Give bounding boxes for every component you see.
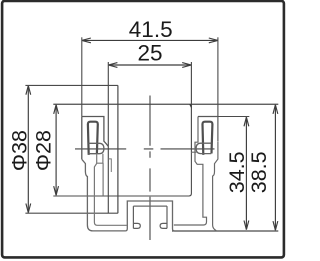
extension line 41.5 right [217,37,219,141]
T-slot left hook with lip [133,206,140,228]
right clip inner tube [202,122,212,155]
right clip inner edge, bracket steps and foot inner wall [174,117,207,226]
svg-text:Φ28: Φ28 [32,130,56,171]
right clip outer rect top [198,116,218,118]
vertical centerline (chain line) [149,96,151,241]
extension line 25 right / bracket edge [190,62,192,152]
T-slot right hook with lip [160,206,167,228]
dimension line phi28 vertical with arrows [54,105,59,195]
dimension line 34.5 vertical with arrows [244,117,249,229]
phi28 bottom extension / bracket plate top edge [53,152,191,196]
T-slot inner ceiling [133,205,167,207]
left clip outer edge [81,117,83,160]
svg-text:38.5: 38.5 [247,151,271,193]
right axle pill [196,143,211,153]
left clip lower outline, foot and T-slot outer walls [82,159,175,231]
svg-text:Φ38: Φ38 [7,130,31,171]
svg-text:34.5: 34.5 [225,151,249,193]
dimension line phi38 vertical with arrows [26,86,31,213]
extension line 25 left / wheel flange left edge [107,62,109,213]
svg-text:25: 25 [137,40,162,65]
bracket corner stub [191,151,196,153]
left axle tab [97,154,103,164]
phi38 bottom extension line (wheel bottom) [25,212,118,214]
dimension line 38.5 vertical with arrows [273,105,278,230]
wheel hub step [108,159,111,172]
left axle pill [88,143,104,153]
left clip inner tube [88,122,98,155]
34.5 top extension line [218,116,249,118]
bottom extension line for 34.5/38.5 (track bottom) [172,230,278,232]
phi38 top extension line (wheel top) [25,84,118,86]
track top line / extension for phi28 top and 38.5 top [53,103,278,105]
dimension line 25 with arrows [108,63,191,68]
right clip outer edge and foot outer wall [213,141,218,230]
dimension line 41.5 with arrows [82,38,218,43]
left arm inner edge [102,163,104,196]
svg-text:41.5: 41.5 [129,17,173,42]
junction mark at 25 extension and track top [189,104,191,108]
wheel flange right edge [117,85,119,213]
extension line 41.5 left [81,37,83,116]
left clip outer rect top and inner edge [82,117,109,147]
left arm outer edge and foot inner wall [94,163,127,225]
horizontal centerline (chain line) [75,148,215,150]
